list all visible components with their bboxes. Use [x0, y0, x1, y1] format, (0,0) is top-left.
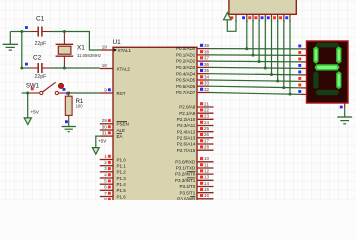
- resistor pack pin 1: [230, 14, 238, 21]
- svg-text:38: 38: [204, 49, 210, 54]
- junction SW1 to power: [26, 92, 29, 95]
- wire net segb P0.1 to display: [210, 54, 303, 57]
- wire net sega P0.0 to display: [210, 48, 303, 50]
- wire pack pin1 to power: [227, 18, 236, 32]
- U1 pin 25 P2.4/A12: [177, 126, 214, 134]
- power terminal +5V pack: [224, 13, 232, 20]
- svg-text:XTAL2: XTAL2: [117, 66, 131, 71]
- display segment c lit: [336, 71, 341, 89]
- svg-text:24: 24: [204, 120, 210, 125]
- junction crystal top: [63, 30, 66, 33]
- svg-text:P1.3: P1.3: [117, 176, 127, 181]
- U1 pin 35 P0.4/AD4: [176, 68, 209, 76]
- display segment f lit: [313, 46, 318, 63]
- svg-text:U1: U1: [113, 39, 122, 46]
- svg-text:P3.3/INT1: P3.3/INT1: [175, 178, 196, 183]
- svg-text:P1.1: P1.1: [117, 164, 127, 169]
- svg-text:SW1: SW1: [26, 84, 40, 90]
- junction node C2: [20, 67, 23, 70]
- wire C2 to XTAL2: [50, 67, 100, 69]
- wire net segd P0.3 to display: [210, 67, 303, 68]
- op IC U1 body AT89C51: [113, 47, 197, 207]
- svg-text:36: 36: [204, 62, 210, 67]
- svg-text:P3.5/T1: P3.5/T1: [180, 190, 196, 195]
- svg-text:18: 18: [102, 63, 108, 68]
- U1 pin 19 XTAL1: [100, 44, 132, 52]
- svg-text:ALE: ALE: [117, 128, 126, 133]
- svg-text:13: 13: [204, 175, 210, 180]
- svg-text:P2.2/A10: P2.2/A10: [177, 117, 196, 122]
- U1 pin 9 RST: [100, 87, 126, 95]
- svg-text:+5V: +5V: [31, 110, 40, 115]
- resistor pack pin 8: [279, 14, 286, 21]
- resistor pack RN1 body: [229, 0, 296, 14]
- wire pack pin 5 vertical: [264, 18, 266, 68]
- U1 pin 34 P0.5/AD5: [176, 74, 209, 82]
- junction crystal bottom: [63, 67, 66, 70]
- power terminal +5V left: [24, 118, 31, 125]
- capacitor C2: [22, 63, 50, 73]
- svg-text:22pF: 22pF: [35, 41, 47, 47]
- svg-text:28: 28: [204, 145, 210, 150]
- U1 pin 16 P3.6 WR: [177, 193, 213, 201]
- U1 pin 6 P1.5: [100, 185, 126, 193]
- capacitor C1: [22, 26, 50, 36]
- junction sege: [270, 73, 273, 76]
- display segment a unlit: [316, 43, 340, 48]
- svg-text:EA: EA: [117, 134, 123, 139]
- U1 pin 14 P3.4 T0: [180, 181, 214, 189]
- svg-text:22: 22: [204, 108, 210, 113]
- switch SW1: [22, 82, 70, 94]
- svg-text:P2.5/A13: P2.5/A13: [177, 135, 196, 140]
- svg-text:10: 10: [204, 156, 210, 161]
- U1 pin 13 P3.3 INT1: [175, 175, 213, 183]
- svg-text:P2.3/A11: P2.3/A11: [177, 123, 196, 128]
- U1 pin 15 P3.5 T1: [180, 187, 214, 195]
- svg-text:P2.0/A8: P2.0/A8: [179, 105, 196, 110]
- display segment e unlit: [313, 71, 318, 89]
- svg-text:31: 31: [102, 131, 108, 136]
- svg-text:P0.1/AD1: P0.1/AD1: [176, 53, 196, 58]
- junction segh: [289, 93, 292, 96]
- wire pack pin 9 vertical: [289, 18, 291, 94]
- wire pack pin 4 vertical: [258, 18, 260, 62]
- svg-text:P0.4/AD4: P0.4/AD4: [176, 71, 196, 76]
- wire ground to node: [10, 31, 21, 33]
- svg-text:100: 100: [76, 103, 84, 108]
- wire net segc P0.2 to display: [210, 60, 303, 63]
- U1 pin 8 P1.7: [100, 197, 126, 205]
- resistor pack pin 9: [285, 14, 292, 21]
- svg-text:P1.2: P1.2: [117, 170, 127, 175]
- svg-text:+5V: +5V: [98, 139, 107, 144]
- svg-text:P2.4/A12: P2.4/A12: [177, 129, 196, 134]
- junction RST node: [67, 92, 70, 95]
- U1 pin 7 P1.6: [100, 191, 126, 199]
- U1 pin 17 P3.7 RD: [178, 199, 213, 207]
- wire net segh P0.7 to display: [210, 93, 303, 95]
- U1 pin 21 P2.0/A8: [179, 101, 213, 109]
- svg-text:17: 17: [204, 199, 210, 200]
- svg-text:11: 11: [204, 162, 209, 167]
- wire pack pin 6 vertical: [271, 18, 273, 75]
- svg-text:P3.0/RXD: P3.0/RXD: [175, 159, 196, 164]
- svg-text:P3.2/INT0: P3.2/INT0: [175, 172, 196, 177]
- U1 pin 36 P0.3/AD3: [176, 62, 209, 70]
- junction segb: [252, 54, 255, 57]
- U1 pin 28 P2.7/A15: [177, 145, 214, 153]
- svg-text:P2.1/A9: P2.1/A9: [179, 111, 196, 116]
- U1 pin 26 P2.5/A13: [177, 132, 214, 140]
- U1 pin 2 P1.1: [100, 160, 126, 168]
- svg-text:21: 21: [204, 101, 210, 106]
- U1 pin 30 ALE: [100, 124, 125, 132]
- display pin c: [298, 58, 306, 62]
- resistor pack pin 7: [273, 14, 280, 21]
- junction node C1: [20, 30, 23, 33]
- svg-text:16: 16: [204, 193, 210, 198]
- display pin g: [298, 84, 306, 88]
- svg-text:P0.2/AD2: P0.2/AD2: [176, 59, 196, 64]
- U1 pin 18 XTAL2: [100, 63, 131, 71]
- resistor pack pin 2: [242, 14, 249, 21]
- U1 pin 11 P3.1 TXD: [176, 162, 214, 170]
- svg-text:32: 32: [204, 87, 210, 92]
- svg-text:27: 27: [204, 138, 210, 143]
- svg-text:34: 34: [204, 74, 210, 79]
- U1 pin 4 P1.3: [100, 172, 126, 180]
- display pin d: [298, 64, 306, 68]
- junction segg: [282, 86, 285, 89]
- svg-text:25: 25: [204, 126, 210, 131]
- svg-text:15: 15: [204, 187, 210, 192]
- svg-text:P3.6/WR: P3.6/WR: [177, 196, 196, 200]
- svg-text:23: 23: [204, 114, 210, 119]
- U1 pin 10 P3.0 RXD: [175, 156, 213, 164]
- U1 pin 37 P0.2/AD2: [176, 56, 209, 64]
- svg-text:30: 30: [102, 124, 108, 129]
- U1 pin 23 P2.2/A10: [177, 114, 214, 122]
- svg-text:P3.1/TXD: P3.1/TXD: [176, 166, 196, 171]
- svg-text:RST: RST: [117, 91, 126, 96]
- svg-text:37: 37: [204, 56, 210, 61]
- display common pin: [340, 103, 345, 108]
- svg-text:XTAL1: XTAL1: [118, 48, 132, 53]
- svg-text:P2.6/A14: P2.6/A14: [177, 142, 196, 147]
- svg-text:12: 12: [204, 169, 210, 174]
- U1 pin 38 P0.1/AD1: [176, 49, 209, 57]
- display pin a: [298, 45, 306, 49]
- U1 pin 12 P3.2 INT0: [175, 169, 213, 177]
- ground GND top-left: [3, 32, 18, 51]
- wire net sege P0.4 to display: [210, 74, 303, 75]
- svg-text:C2: C2: [33, 54, 42, 61]
- U1 pin 29 PSEN: [100, 118, 129, 126]
- wire SW1 to RST: [69, 92, 100, 94]
- svg-text:35: 35: [204, 68, 210, 73]
- svg-text:C1: C1: [36, 16, 45, 23]
- U1 pin 24 P2.3/A11: [177, 120, 213, 128]
- svg-text:P0.6/AD6: P0.6/AD6: [176, 84, 196, 89]
- svg-text:P0.3/AD3: P0.3/AD3: [176, 65, 196, 70]
- U1 pin 33 P0.6/AD6: [176, 81, 209, 89]
- resistor pack pin 5: [261, 14, 268, 21]
- U1 pin 32 P0.7/AD7: [176, 87, 209, 95]
- 7-segment display body: [307, 41, 349, 103]
- display segment g lit: [315, 64, 340, 70]
- U1 pin 3 P1.2: [100, 166, 126, 174]
- svg-text:X1: X1: [77, 45, 85, 52]
- display pin e: [298, 71, 306, 75]
- svg-text:P1.5: P1.5: [117, 188, 127, 193]
- resistor pack pin 6: [267, 14, 274, 21]
- svg-text:PSEN: PSEN: [117, 122, 129, 127]
- display pin f: [298, 77, 306, 81]
- power terminal +5V EA: [92, 148, 99, 155]
- svg-text:P0.5/AD5: P0.5/AD5: [176, 78, 196, 83]
- wire pack pin 8 vertical: [283, 18, 285, 88]
- display segment b lit: [336, 46, 341, 63]
- svg-text:14: 14: [204, 181, 210, 186]
- svg-text:22pF: 22pF: [35, 74, 47, 80]
- ground GND display: [337, 108, 352, 124]
- wire ground rail vertical: [21, 32, 23, 69]
- svg-text:33: 33: [204, 81, 210, 86]
- wire net segf P0.5 to display: [210, 80, 303, 81]
- svg-text:19: 19: [102, 44, 108, 49]
- svg-text:26: 26: [204, 132, 210, 137]
- resistor pack pin 3: [248, 14, 255, 21]
- wire EA to power: [96, 136, 100, 148]
- wire C1 to XTAL1: [50, 32, 100, 51]
- display segment d unlit: [316, 90, 340, 96]
- wire pack pin 2 vertical: [246, 18, 248, 49]
- svg-text:P2.7/A15: P2.7/A15: [177, 148, 196, 153]
- crystal X1: [56, 32, 74, 69]
- ground GND under R1: [62, 121, 76, 132]
- display pin b: [298, 51, 306, 55]
- junction segc: [258, 60, 261, 63]
- resistor pack pin 4: [254, 14, 261, 21]
- resistor R1: [65, 93, 72, 123]
- svg-text:P1.0: P1.0: [117, 157, 127, 162]
- U1 pin 39 P0.0/AD0: [176, 43, 209, 51]
- junction sega: [245, 47, 248, 50]
- svg-text:P1.4: P1.4: [117, 182, 127, 187]
- junction segd: [264, 67, 267, 70]
- svg-text:11.0592MHz: 11.0592MHz: [77, 53, 101, 58]
- wire net segg P0.6 to display: [210, 86, 303, 88]
- svg-text:P0.0/AD0: P0.0/AD0: [176, 46, 196, 51]
- svg-text:39: 39: [204, 43, 210, 48]
- U1 pin 22 P2.1/A9: [179, 108, 213, 116]
- svg-text:29: 29: [102, 118, 108, 123]
- U1 pin 31 EA: [100, 131, 123, 139]
- wire pack pin 3 vertical: [252, 18, 254, 55]
- U1 pin 27 P2.6/A14: [177, 138, 214, 146]
- wire SW1 to power terminal: [27, 93, 29, 118]
- junction segf: [276, 80, 279, 83]
- U1 pin 5 P1.4: [100, 179, 126, 187]
- wire pack pin 7 vertical: [277, 18, 279, 81]
- svg-text:P1.6: P1.6: [117, 194, 127, 199]
- svg-text:P3.4/T0: P3.4/T0: [180, 184, 196, 189]
- display pin h: [298, 90, 306, 94]
- U1 pin 1 P1.0: [100, 154, 126, 162]
- svg-text:P0.7/AD7: P0.7/AD7: [176, 90, 196, 95]
